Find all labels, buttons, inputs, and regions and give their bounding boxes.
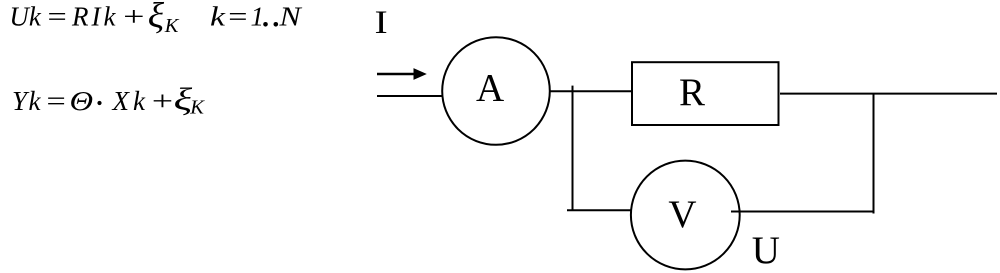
svg-text:R: R bbox=[679, 71, 705, 114]
label I (input current) bbox=[375, 4, 388, 40]
svg-text:Xk: Xk bbox=[112, 86, 149, 116]
node: right junction vertical wire bbox=[873, 94, 875, 214]
svg-text:=: = bbox=[44, 86, 67, 116]
svg-text:U: U bbox=[752, 229, 780, 272]
svg-text:+: + bbox=[149, 87, 174, 117]
equation 2: Yk = Theta * Xk + xi_K bbox=[12, 82, 205, 118]
svg-text:Uk: Uk bbox=[9, 2, 41, 32]
svg-text:RIk: RIk bbox=[71, 2, 118, 32]
svg-text:1: 1 bbox=[251, 2, 265, 32]
svg-text:Yk: Yk bbox=[12, 86, 42, 116]
svg-text:k: k bbox=[210, 2, 225, 32]
svg-text:N: N bbox=[278, 3, 303, 32]
svg-text:+: + bbox=[121, 2, 146, 32]
ammeter A1 (circle) bbox=[442, 37, 550, 145]
svg-text:=: = bbox=[45, 2, 68, 32]
equation 1: Uk = RIk + xi_K, k = 1..N bbox=[9, 0, 303, 37]
svg-text:K: K bbox=[189, 97, 205, 119]
wire: resistor to output (top rail) bbox=[780, 93, 997, 95]
wire: input lead into ammeter bbox=[377, 95, 443, 97]
resistor R (rectangle) bbox=[632, 62, 779, 125]
wire: ammeter to resistor bbox=[550, 90, 632, 92]
wire: left junction to voltmeter bbox=[567, 209, 631, 211]
svg-text:K: K bbox=[164, 15, 180, 37]
svg-text:I: I bbox=[375, 4, 388, 40]
voltmeter V1 (circle) bbox=[631, 161, 740, 270]
svg-text:Θ: Θ bbox=[70, 87, 94, 117]
node: left junction vertical wire bbox=[572, 86, 574, 210]
svg-text:A: A bbox=[476, 67, 504, 110]
svg-text:=: = bbox=[226, 2, 249, 32]
wire: voltmeter to right junction bbox=[731, 211, 875, 213]
current direction arrow bbox=[377, 68, 427, 80]
svg-text:ξ: ξ bbox=[148, 0, 164, 36]
svg-text:V: V bbox=[668, 193, 696, 236]
